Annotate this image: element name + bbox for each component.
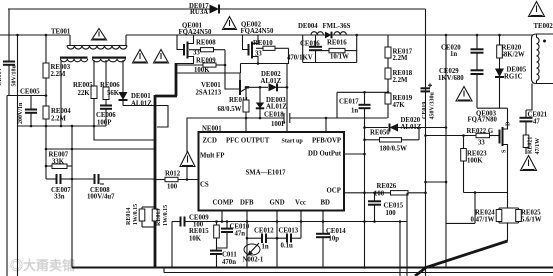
svg-text:RE023: RE023 xyxy=(467,151,487,158)
wire RE005 branch to thick xyxy=(94,126,155,140)
wire thick jog xyxy=(155,95,177,98)
svg-text:AL01Z: AL01Z xyxy=(131,101,152,108)
svg-text:470/1KV: 470/1KV xyxy=(287,55,313,62)
resistor RE021 xyxy=(523,135,529,148)
svg-text:S: S xyxy=(502,149,508,153)
svg-text:1n: 1n xyxy=(351,108,358,115)
wire y73 to thick xyxy=(176,72,241,74)
svg-text:CE019: CE019 xyxy=(422,102,428,119)
wire rail2 left xyxy=(0,34,70,36)
wire CE016 box bottom xyxy=(303,62,357,64)
wire x46 lower xyxy=(45,119,47,179)
wire x225 RE008/RE009 to VE001 base xyxy=(225,50,239,89)
wire OCP xyxy=(344,192,391,194)
warning triangle pair left of QE001 xyxy=(133,50,148,64)
node CE005 top xyxy=(45,94,48,97)
svg-text:AL01Z: AL01Z xyxy=(261,78,282,85)
wire vertical x425 xyxy=(425,9,427,276)
wire second bottom line xyxy=(163,268,165,273)
svg-text:RE018: RE018 xyxy=(393,70,413,77)
wire x172 xyxy=(171,222,173,268)
wire x407 xyxy=(406,193,408,276)
svg-text:DE005: DE005 xyxy=(507,67,527,74)
svg-text:BD: BD xyxy=(321,200,331,207)
node x46 y149 xyxy=(45,148,48,151)
svg-text:10K: 10K xyxy=(189,236,202,243)
wire thick x155 down xyxy=(154,95,157,268)
svg-text:100V/4u7: 100V/4u7 xyxy=(87,194,115,201)
wire horizontal y87.3 DE002 row xyxy=(248,86,268,88)
svg-text:DE004: DE004 xyxy=(298,23,318,30)
svg-text:Vcc: Vcc xyxy=(295,200,306,207)
svg-text:47K: 47K xyxy=(393,102,406,109)
svg-text:Mult FP: Mult FP xyxy=(200,153,224,160)
svg-text:RE021: RE021 xyxy=(528,137,534,154)
wire vertical x9 lower xyxy=(8,65,10,96)
wire RE010 return xyxy=(241,48,289,63)
transformer TE001 primary winding xyxy=(67,45,127,47)
capacitor CE019 electrolytic xyxy=(421,87,431,89)
resistor RE023 xyxy=(463,136,465,149)
svg-text:2.2M: 2.2M xyxy=(393,77,408,84)
svg-text:SMA—E1017: SMA—E1017 xyxy=(246,170,287,177)
capacitor CE006 xyxy=(105,100,107,106)
warning triangle below CE029 xyxy=(456,87,472,102)
svg-text:CE015: CE015 xyxy=(384,203,404,210)
resistor RE004 xyxy=(43,106,49,119)
wire DE001 loop to thick xyxy=(123,106,168,128)
svg-text:1KV/680: 1KV/680 xyxy=(438,75,464,82)
svg-text:RE014: RE014 xyxy=(126,208,132,225)
svg-text:CE009: CE009 xyxy=(189,215,209,222)
svg-text:FQA24N50: FQA24N50 xyxy=(179,29,212,36)
svg-text:1W/0.15: 1W/0.15 xyxy=(133,204,139,225)
svg-text:1n: 1n xyxy=(450,51,457,58)
svg-text:2.2M: 2.2M xyxy=(51,71,66,78)
svg-text:RE019: RE019 xyxy=(393,95,413,102)
capacitor CE007 xyxy=(46,178,57,180)
warning triangle top right xyxy=(529,2,545,17)
wire vertical x16.5 xyxy=(17,35,19,276)
svg-text:100K: 100K xyxy=(467,158,483,165)
svg-text:2.2M: 2.2M xyxy=(393,55,408,62)
svg-text:TE002: TE002 xyxy=(534,23,553,30)
svg-text:47: 47 xyxy=(533,119,540,126)
svg-text:10/1W: 10/1W xyxy=(330,54,349,61)
wire bottom rail xyxy=(72,267,553,269)
wire y192.5 xyxy=(464,192,508,194)
svg-text:PFB/OVP: PFB/OVP xyxy=(312,138,341,145)
wire GND pin drop x277 xyxy=(276,211,278,268)
wire x364 long vertical xyxy=(364,108,366,267)
svg-text:D: D xyxy=(506,121,512,126)
svg-text:180/0.5W: 180/0.5W xyxy=(380,146,408,153)
wire DD OutPut xyxy=(344,153,365,155)
wire box left vertical xyxy=(302,35,304,63)
wire vertical x72 xyxy=(71,126,73,268)
svg-text:DD OutPut: DD OutPut xyxy=(308,151,342,158)
wire y223.4 xyxy=(446,222,475,224)
svg-text:22K: 22K xyxy=(78,90,91,97)
diode DE017 xyxy=(210,5,220,14)
svg-text:FML-36S: FML-36S xyxy=(323,23,351,30)
svg-text:33: 33 xyxy=(478,140,485,147)
svg-text:RU3A: RU3A xyxy=(190,9,208,16)
wire horizontal y126 xyxy=(18,125,107,127)
svg-text:33: 33 xyxy=(255,51,262,58)
svg-text:VE001: VE001 xyxy=(201,82,221,89)
svg-text:ZCD: ZCD xyxy=(203,138,217,145)
diode DE001 zener xyxy=(122,60,124,92)
wire x475 xyxy=(474,193,476,224)
svg-text:RE007: RE007 xyxy=(49,152,69,159)
svg-text:RE006: RE006 xyxy=(100,82,120,89)
wire top rail xyxy=(8,8,426,10)
svg-text:N002-1: N002-1 xyxy=(243,257,264,264)
svg-text:CE005: CE005 xyxy=(20,89,40,96)
svg-text:DFB: DFB xyxy=(240,200,254,207)
svg-text:RE008: RE008 xyxy=(196,40,216,47)
svg-text:RE025: RE025 xyxy=(521,210,541,217)
capacitor C011 xyxy=(210,250,222,252)
resistor RE024 RE025 pair xyxy=(499,207,519,209)
svg-text:47n: 47n xyxy=(235,231,246,238)
wire horizontal y149 xyxy=(46,148,155,150)
transformer TE001 secondary winding left xyxy=(60,57,88,59)
svg-text:68K/2W: 68K/2W xyxy=(501,52,525,59)
wire TE001 sec lead x61 xyxy=(60,60,62,126)
svg-text:FQA24N50: FQA24N50 xyxy=(241,28,274,35)
wire Mult FP riser lower xyxy=(186,167,188,180)
wire x400 xyxy=(399,222,401,276)
svg-text:RE013: RE013 xyxy=(156,209,162,226)
transformer TE001 secondary winding right xyxy=(92,57,126,59)
wire thick QE001 source vertical xyxy=(175,63,178,96)
wire TE002 bottom lead xyxy=(526,84,532,111)
svg-text:56K: 56K xyxy=(107,90,120,97)
transistor QE002 mosfet xyxy=(243,35,249,50)
warning triangle near TE001 xyxy=(92,29,107,41)
svg-text:CS: CS xyxy=(200,182,209,189)
svg-text:OCP: OCP xyxy=(327,188,341,195)
svg-text:AL01Z: AL01Z xyxy=(266,104,287,111)
svg-text:470n: 470n xyxy=(222,259,236,266)
svg-text:CE004: CE004 xyxy=(0,69,3,86)
resistor RE017 xyxy=(387,35,389,47)
lamp N002-1 xyxy=(244,244,260,255)
svg-text:450V/330u: 450V/330u xyxy=(430,92,436,120)
svg-text:RE015: RE015 xyxy=(189,228,209,235)
capacitor CE009 xyxy=(172,221,181,223)
wire y182 xyxy=(426,181,447,183)
svg-text:RE020: RE020 xyxy=(502,45,522,52)
svg-text:5.6/1W: 5.6/1W xyxy=(521,217,542,224)
svg-text:PFC OUTPUT: PFC OUTPUT xyxy=(226,138,270,145)
svg-text:TE001: TE001 xyxy=(51,29,71,36)
wire horizontal y118 xyxy=(187,117,285,119)
resistor RE005 xyxy=(93,60,95,86)
warning triangle right of QE001 xyxy=(223,17,237,30)
svg-text:33: 33 xyxy=(193,50,200,57)
wire horizontal y221.5 xyxy=(185,221,408,223)
svg-text:CE013: CE013 xyxy=(279,228,299,235)
svg-text:100: 100 xyxy=(386,210,397,217)
svg-text:2.2M: 2.2M xyxy=(51,116,66,123)
svg-text:1W/0.15: 1W/0.15 xyxy=(163,205,169,226)
svg-text:0.1u: 0.1u xyxy=(281,243,293,250)
svg-text:CE012: CE012 xyxy=(254,228,274,235)
svg-text:33n: 33n xyxy=(54,194,65,201)
wire x287 startup xyxy=(286,64,288,132)
svg-text:◎大甭卖铺: ◎大甭卖铺 xyxy=(10,258,75,273)
wire multFP riser x186.5 xyxy=(186,118,188,152)
wire PFC OUTPUT pin xyxy=(245,118,247,132)
svg-text:COMP: COMP xyxy=(213,200,234,207)
svg-text:FQA7N80: FQA7N80 xyxy=(468,117,498,124)
warning triangle below RE021 xyxy=(521,156,537,171)
svg-text:C011: C011 xyxy=(222,252,237,259)
svg-text:200V/1n: 200V/1n xyxy=(18,102,24,124)
node rail x356.7 xyxy=(355,34,358,37)
warning triangle left of IC xyxy=(180,152,195,167)
svg-text:RE024: RE024 xyxy=(475,210,495,217)
inductor DE004 coil2 xyxy=(334,32,346,35)
resistor RE003 xyxy=(43,63,49,78)
wire rail2 main xyxy=(126,34,533,36)
svg-text:RE005: RE005 xyxy=(73,82,93,89)
wire x446 long xyxy=(445,35,447,268)
svg-text:RE050: RE050 xyxy=(370,130,390,137)
wire thick diagonal xyxy=(415,241,508,276)
svg-text:Start up: Start up xyxy=(282,139,304,145)
svg-text:100: 100 xyxy=(374,191,385,198)
node rail2-x16.5 xyxy=(16,34,19,37)
capacitor CE008 xyxy=(72,178,95,180)
wire horizontal y95.5 xyxy=(7,95,46,97)
wire VE001 collector riser xyxy=(240,64,242,74)
transistor QE003 mosfet xyxy=(499,130,501,144)
svg-text:0.47/1W: 0.47/1W xyxy=(471,217,495,224)
svg-text:RE016: RE016 xyxy=(327,40,347,47)
svg-text:CE006: CE006 xyxy=(96,112,116,119)
svg-text:2SA1213: 2SA1213 xyxy=(196,90,222,97)
svg-text:100: 100 xyxy=(167,184,178,191)
wire vertical x5.5 xyxy=(6,96,8,276)
svg-text:DE002: DE002 xyxy=(261,71,281,78)
wire DFB pin drop x247 xyxy=(246,211,248,268)
resistor RE006 xyxy=(105,60,107,87)
svg-text:CE017: CE017 xyxy=(339,99,359,106)
capacitor CE004 xyxy=(3,61,15,63)
wire y108 xyxy=(477,107,508,109)
wire vertical x46 top xyxy=(45,35,47,63)
svg-text:R012: R012 xyxy=(165,171,181,178)
wire x46 mid xyxy=(45,78,47,106)
wire vertical x9 upper xyxy=(8,9,10,62)
svg-text:10p: 10p xyxy=(329,236,340,243)
wire Vcc pin drop x301 xyxy=(300,211,302,239)
wire x337 xyxy=(336,92,338,118)
resistor RE018 xyxy=(387,58,389,68)
wire COMP pin drop xyxy=(221,211,223,222)
svg-text:RG1C: RG1C xyxy=(504,74,523,81)
transistor QE001 mosfet xyxy=(177,35,184,50)
svg-text:47/1W: 47/1W xyxy=(535,138,541,155)
wire BD pin drop + capacitor CE014 xyxy=(322,211,324,234)
svg-text:RE026: RE026 xyxy=(377,183,397,190)
svg-text:68/0.5W: 68/0.5W xyxy=(218,106,242,113)
svg-text:1n: 1n xyxy=(262,244,269,251)
resistor RE013 RE014 parallel pair xyxy=(142,206,155,208)
svg-text:DE020: DE020 xyxy=(401,117,421,124)
svg-text:50V/18u: 50V/18u xyxy=(12,65,18,87)
svg-text:100P: 100P xyxy=(97,120,111,127)
svg-text:GND: GND xyxy=(270,200,285,207)
resistor RE019 xyxy=(387,79,389,93)
wire TE001 top stubs xyxy=(69,35,71,46)
wire y92.3 xyxy=(337,91,388,93)
wire pair stem xyxy=(507,223,509,241)
capacitor CE015 xyxy=(374,193,376,202)
svg-text:100P: 100P xyxy=(271,121,285,128)
wire PFB/OVP pin xyxy=(325,118,327,132)
svg-text:DE001: DE001 xyxy=(131,93,151,100)
